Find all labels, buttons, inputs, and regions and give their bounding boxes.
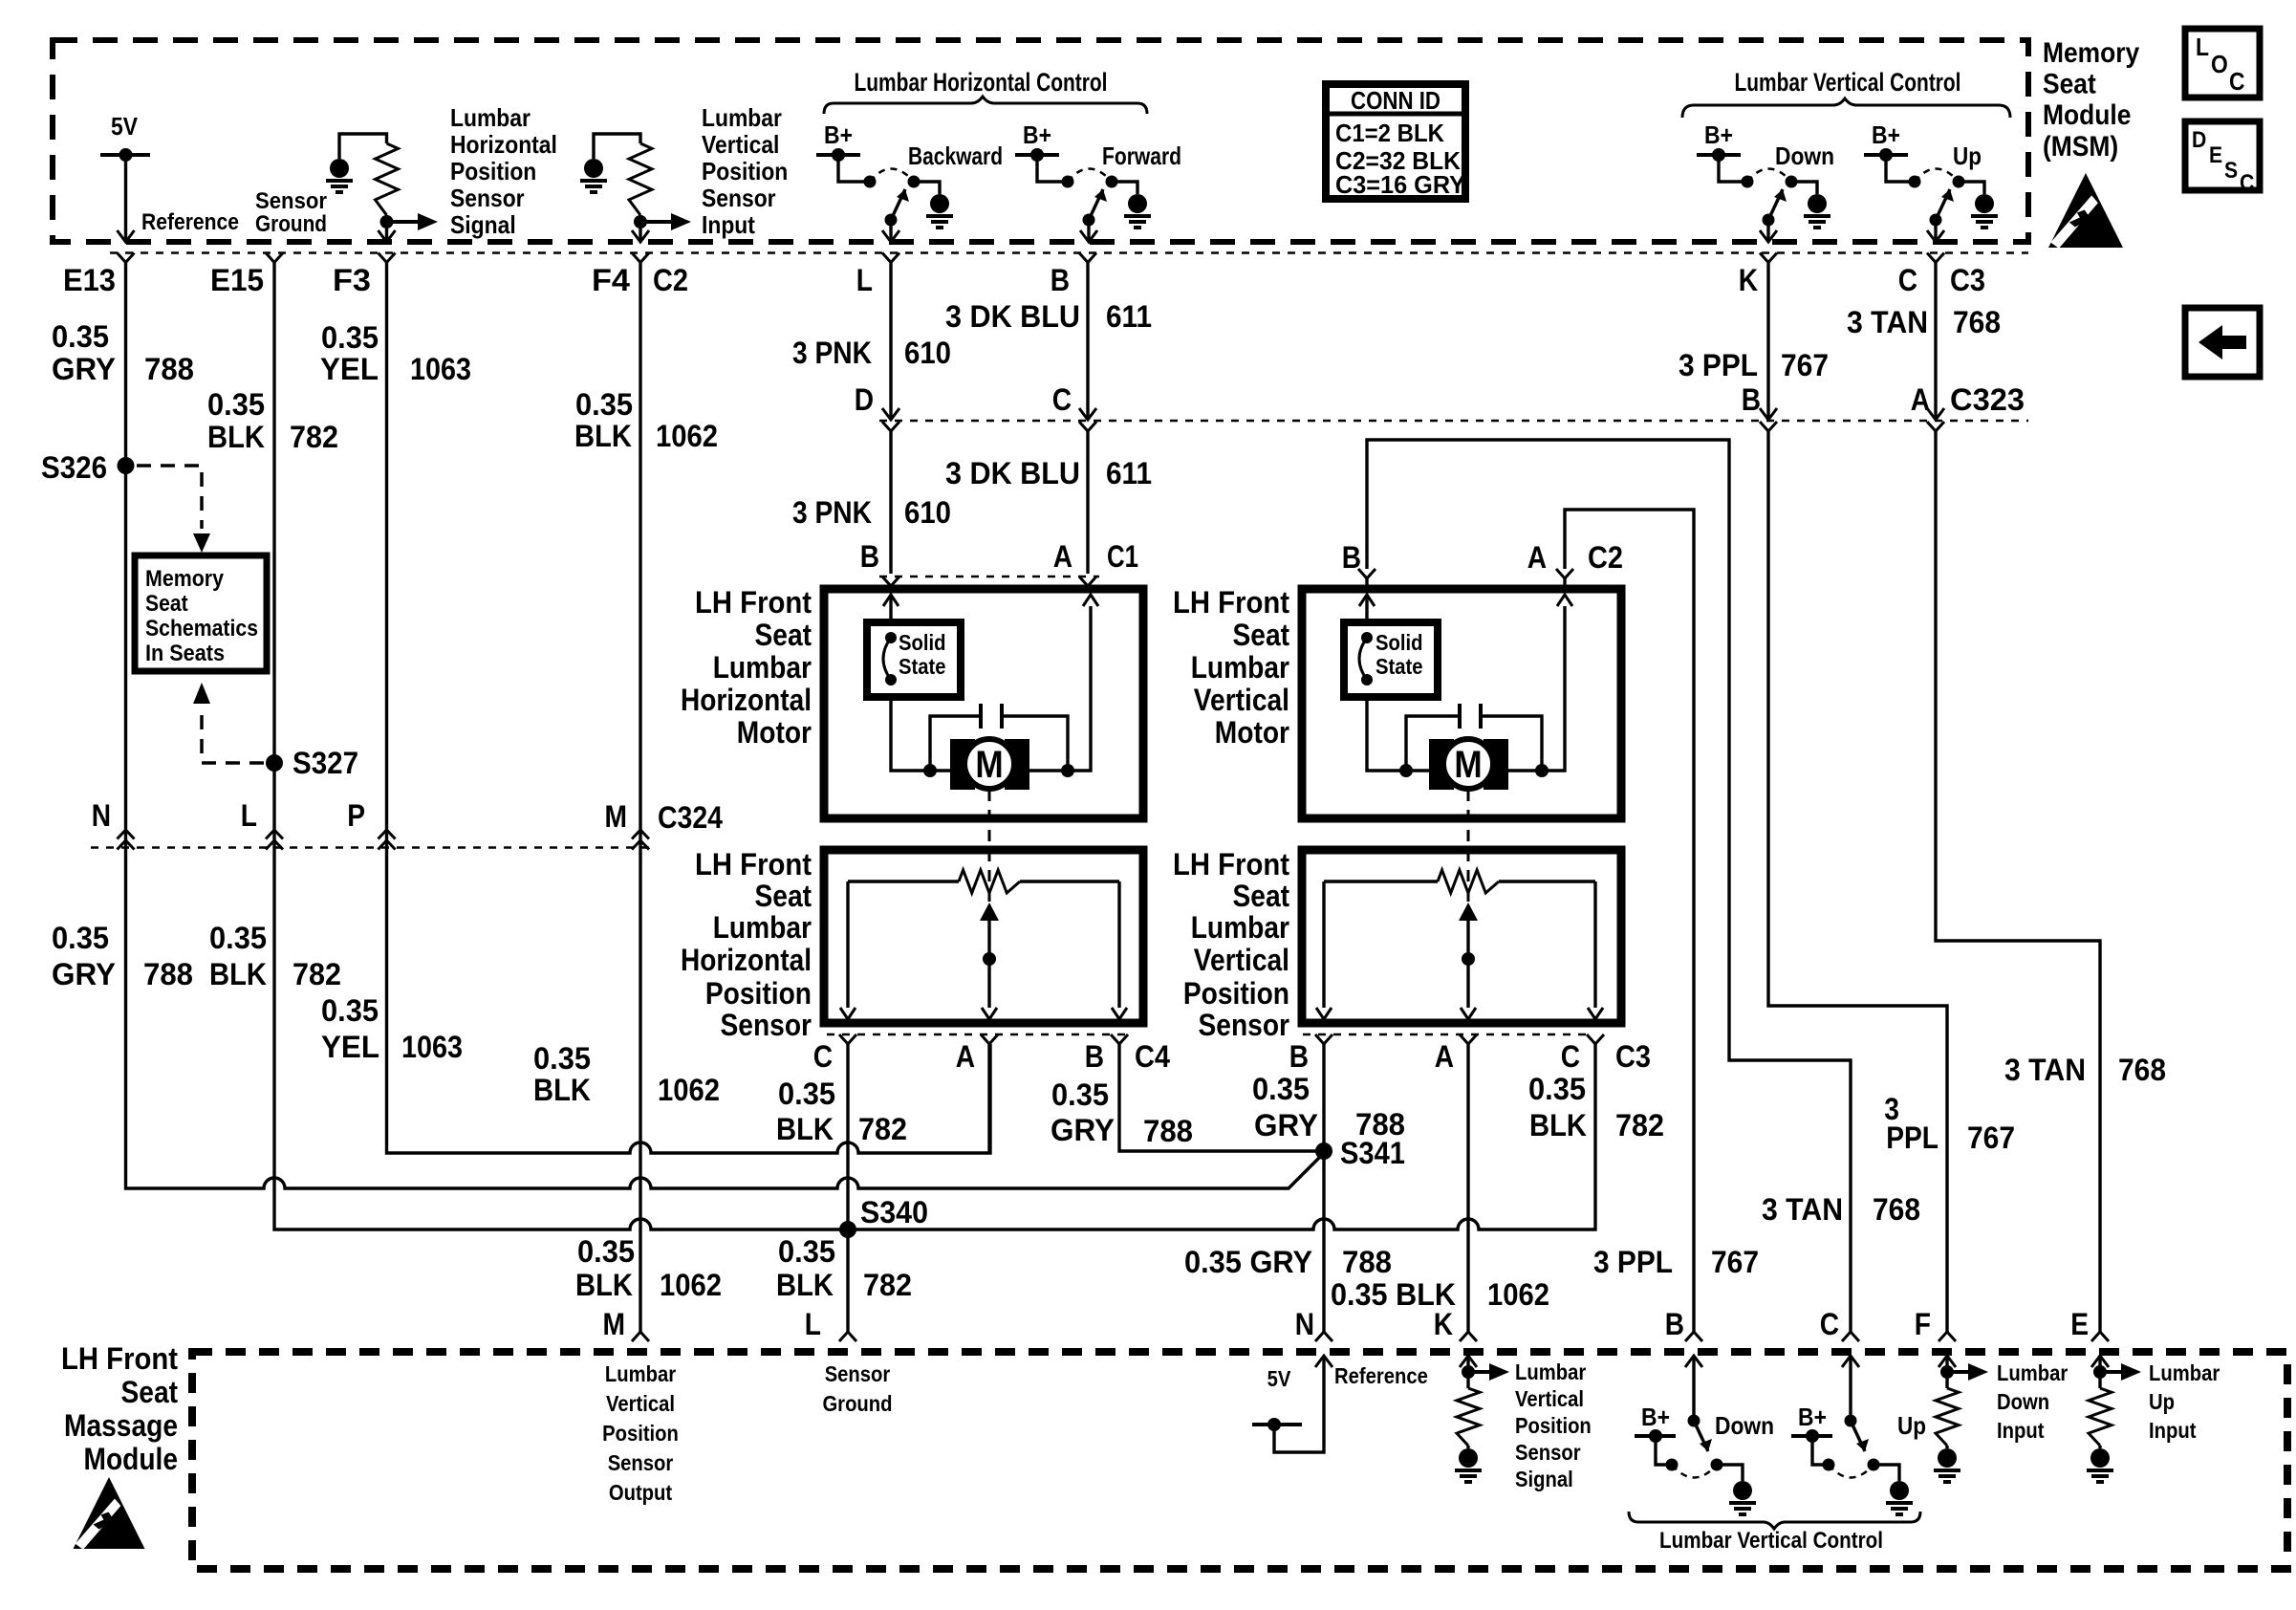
svg-text:Massage: Massage bbox=[64, 1408, 178, 1443]
bottom connector pins bbox=[632, 1332, 649, 1341]
svg-text:5V: 5V bbox=[1267, 1366, 1291, 1391]
svg-text:Motor: Motor bbox=[1215, 715, 1289, 750]
svg-text:782: 782 bbox=[858, 1112, 907, 1146]
svg-text:Sensor: Sensor bbox=[1199, 1008, 1290, 1042]
svg-text:788: 788 bbox=[143, 957, 193, 991]
svg-text:Sensor: Sensor bbox=[608, 1450, 674, 1475]
svg-text:B+: B+ bbox=[1023, 120, 1051, 149]
svg-text:C4: C4 bbox=[1135, 1039, 1170, 1074]
C3 pin wires down bbox=[1322, 1044, 1325, 1332]
svg-text:Position: Position bbox=[450, 157, 536, 185]
wires K and C descend to bottom bbox=[1768, 431, 1947, 1332]
switch blade bbox=[1930, 214, 1942, 227]
svg-text:C: C bbox=[2240, 170, 2254, 196]
wire F3 0.35 YEL 1063 (signal) bbox=[387, 263, 991, 1153]
switch contacts bbox=[1909, 176, 1921, 188]
svg-text:YEL: YEL bbox=[320, 352, 379, 386]
svg-text:767: 767 bbox=[1711, 1245, 1759, 1279]
svg-text:0.35: 0.35 bbox=[1252, 1072, 1310, 1106]
mechanical link (dashed) to position sensor bbox=[1467, 790, 1470, 903]
back-arrow box bbox=[2185, 308, 2260, 377]
svg-text:BLK: BLK bbox=[533, 1073, 591, 1107]
svg-text:GRY: GRY bbox=[1051, 1113, 1115, 1147]
svg-text:0.35: 0.35 bbox=[1528, 1072, 1586, 1106]
svg-text:Vertical: Vertical bbox=[606, 1391, 675, 1416]
svg-text:LH Front: LH Front bbox=[1173, 847, 1289, 881]
svg-text:767: 767 bbox=[1967, 1120, 2015, 1155]
svg-text:BLK: BLK bbox=[776, 1268, 834, 1302]
solid state switch bbox=[867, 622, 961, 697]
svg-text:A: A bbox=[1053, 539, 1072, 574]
ESD symbol (MSM) bbox=[2048, 173, 2123, 249]
svg-text:E: E bbox=[2070, 1307, 2089, 1341]
svg-text:0.35: 0.35 bbox=[207, 387, 265, 422]
svg-text:Lumbar: Lumbar bbox=[450, 103, 531, 132]
lumbar vertical position sensor (resistor) in MSM bbox=[594, 134, 640, 159]
svg-text:C: C bbox=[1820, 1307, 1839, 1341]
svg-text:Down: Down bbox=[1775, 141, 1834, 170]
solid state switch bbox=[1344, 622, 1438, 697]
svg-text:C2: C2 bbox=[1588, 540, 1623, 575]
svg-text:788: 788 bbox=[1355, 1107, 1405, 1142]
switch blade bbox=[885, 214, 898, 227]
svg-text:Input: Input bbox=[702, 210, 755, 239]
svg-text:C1: C1 bbox=[1107, 539, 1138, 574]
wire E13 0.35 GRY 788 down to routing bbox=[126, 263, 1325, 1188]
svg-text:C323: C323 bbox=[1950, 382, 2025, 417]
svg-text:Forward: Forward bbox=[1102, 141, 1181, 170]
Memory Seat Module (MSM) dashed outline bbox=[53, 40, 2028, 242]
svg-text:Backward: Backward bbox=[908, 141, 1003, 170]
wires to C1 connector bbox=[889, 431, 892, 574]
svg-text:3 PPL: 3 PPL bbox=[1593, 1245, 1673, 1279]
svg-text:A: A bbox=[1911, 382, 1930, 417]
svg-text:Lumbar Vertical Control: Lumbar Vertical Control bbox=[1735, 68, 1961, 97]
svg-text:611: 611 bbox=[1106, 299, 1152, 334]
svg-text:768: 768 bbox=[2118, 1053, 2166, 1087]
svg-text:C: C bbox=[2229, 67, 2245, 96]
svg-text:S327: S327 bbox=[292, 746, 358, 780]
svg-text:0.35: 0.35 bbox=[52, 319, 109, 354]
svg-text:In Seats: In Seats bbox=[145, 641, 225, 666]
connector C1 row bbox=[879, 576, 1099, 578]
svg-text:Solid: Solid bbox=[899, 630, 946, 655]
svg-text:B+: B+ bbox=[1704, 120, 1733, 149]
svg-text:Sensor: Sensor bbox=[255, 188, 327, 214]
svg-text:Lumbar: Lumbar bbox=[1191, 910, 1289, 945]
svg-text:F3: F3 bbox=[333, 263, 371, 297]
svg-text:Lumbar: Lumbar bbox=[702, 103, 782, 132]
svg-text:E13: E13 bbox=[63, 263, 116, 297]
wire F4 0.35 BLK 1062 bbox=[639, 263, 641, 1332]
switch blade bbox=[1688, 1415, 1700, 1427]
svg-text:CONN ID: CONN ID bbox=[1351, 86, 1440, 115]
svg-text:C3: C3 bbox=[1950, 263, 1985, 297]
switch contacts bbox=[864, 176, 877, 188]
K input: resistor + signal arrow bbox=[1460, 1356, 1477, 1367]
ground bbox=[1717, 1465, 1743, 1481]
svg-text:Lumbar: Lumbar bbox=[1997, 1360, 2068, 1385]
wire A(C2) up-over-down to bottom B bbox=[1565, 510, 1694, 1332]
svg-text:0.35: 0.35 bbox=[1051, 1077, 1109, 1112]
C4 pin wires down bbox=[846, 1044, 849, 1229]
inline connector C323 dashed row bbox=[879, 420, 2028, 423]
svg-text:0.35: 0.35 bbox=[533, 1041, 591, 1076]
svg-text:3 PPL: 3 PPL bbox=[1679, 348, 1758, 382]
capacitor (suppression) bbox=[1458, 704, 1462, 729]
LH Front Seat Lumbar Vertical Motor bbox=[1302, 589, 1621, 818]
svg-text:A: A bbox=[1435, 1039, 1454, 1074]
svg-text:Input: Input bbox=[2149, 1418, 2197, 1443]
svg-text:C3: C3 bbox=[1615, 1039, 1651, 1074]
svg-text:GRY: GRY bbox=[52, 352, 116, 386]
switch Down (massage) bbox=[1685, 1356, 1702, 1367]
connector pins at MSM bbox=[118, 253, 135, 263]
svg-text:Lumbar: Lumbar bbox=[2149, 1360, 2220, 1385]
motor M armature and brushes bbox=[950, 739, 975, 790]
svg-text:Seat: Seat bbox=[1233, 879, 1290, 913]
svg-text:Sensor: Sensor bbox=[825, 1361, 891, 1386]
ground bbox=[1874, 1465, 1899, 1481]
wire 5V to E13 bbox=[124, 155, 127, 240]
svg-text:1062: 1062 bbox=[1487, 1277, 1549, 1312]
connector C2 forks bbox=[1358, 569, 1375, 578]
CONN ID table bbox=[1326, 84, 1465, 199]
svg-text:Module: Module bbox=[84, 1442, 179, 1476]
svg-text:1063: 1063 bbox=[401, 1030, 463, 1064]
svg-text:Sensor: Sensor bbox=[1515, 1440, 1581, 1465]
svg-text:S340: S340 bbox=[860, 1195, 928, 1229]
svg-text:782: 782 bbox=[292, 957, 341, 991]
svg-text:Lumbar: Lumbar bbox=[713, 910, 812, 945]
E input: Lumbar Up Input bbox=[2091, 1356, 2109, 1367]
svg-text:0.35: 0.35 bbox=[321, 320, 379, 355]
svg-text:E15: E15 bbox=[210, 263, 264, 297]
svg-text:Ground: Ground bbox=[255, 211, 327, 237]
svg-text:Down: Down bbox=[1997, 1389, 2049, 1414]
svg-text:Sensor: Sensor bbox=[702, 184, 776, 212]
svg-text:1062: 1062 bbox=[656, 419, 718, 453]
svg-text:782: 782 bbox=[290, 420, 338, 454]
Memory Seat Schematics In Seats box bbox=[135, 555, 267, 671]
svg-text:3 DK BLU: 3 DK BLU bbox=[945, 456, 1080, 490]
svg-text:Signal: Signal bbox=[450, 210, 516, 239]
MSM connector dashed line bbox=[110, 251, 2028, 254]
svg-text:Memory: Memory bbox=[2043, 37, 2139, 69]
svg-text:A: A bbox=[1527, 540, 1547, 575]
svg-text:Seat: Seat bbox=[755, 618, 812, 652]
switch contacts bbox=[1062, 176, 1074, 188]
svg-text:Down: Down bbox=[1715, 1411, 1774, 1440]
svg-text:Position: Position bbox=[602, 1421, 679, 1446]
svg-text:K: K bbox=[1434, 1307, 1453, 1341]
svg-text:Lumbar: Lumbar bbox=[713, 650, 812, 685]
svg-text:Output: Output bbox=[609, 1480, 673, 1505]
svg-text:Ground: Ground bbox=[822, 1391, 892, 1416]
svg-text:1063: 1063 bbox=[410, 352, 471, 386]
svg-text:C324: C324 bbox=[658, 800, 723, 835]
svg-text:Sensor: Sensor bbox=[721, 1008, 812, 1042]
svg-text:S: S bbox=[2224, 158, 2238, 184]
svg-text:0.35 GRY: 0.35 GRY bbox=[1184, 1245, 1312, 1279]
svg-text:YEL: YEL bbox=[321, 1030, 379, 1064]
svg-text:Horizontal: Horizontal bbox=[450, 130, 557, 159]
svg-text:N: N bbox=[92, 798, 111, 833]
svg-text:S326: S326 bbox=[41, 450, 107, 485]
svg-text:C2: C2 bbox=[653, 263, 688, 297]
svg-text:B+: B+ bbox=[1872, 120, 1900, 149]
svg-text:5V: 5V bbox=[111, 112, 139, 141]
wiper bbox=[1459, 903, 1478, 921]
svg-text:782: 782 bbox=[863, 1268, 912, 1302]
ground bbox=[1112, 182, 1137, 194]
switch blade bbox=[1083, 214, 1095, 227]
svg-text:Lumbar: Lumbar bbox=[1191, 650, 1289, 685]
svg-text:3 TAN: 3 TAN bbox=[1762, 1192, 1843, 1227]
splice S326 bbox=[118, 457, 135, 474]
svg-text:3 PNK: 3 PNK bbox=[792, 495, 872, 530]
svg-text:B: B bbox=[1289, 1039, 1309, 1074]
svg-text:D: D bbox=[855, 382, 874, 417]
svg-text:GRY: GRY bbox=[1254, 1108, 1318, 1142]
svg-text:Vertical: Vertical bbox=[1515, 1386, 1584, 1411]
wire C 3 TAN 768 down bbox=[1934, 263, 1937, 419]
svg-text:Position: Position bbox=[705, 976, 812, 1011]
DESC box bbox=[2185, 121, 2260, 190]
svg-text:C: C bbox=[1561, 1039, 1580, 1074]
svg-text:PPL: PPL bbox=[1886, 1120, 1939, 1155]
svg-text:0.35: 0.35 bbox=[209, 921, 267, 955]
svg-text:Sensor: Sensor bbox=[450, 184, 525, 212]
svg-text:K: K bbox=[1739, 263, 1758, 297]
connector C3 dashed row bbox=[1303, 1033, 1587, 1036]
potentiometer element bbox=[848, 880, 959, 882]
LH Front Seat Lumbar Vertical Position Sensor bbox=[1302, 850, 1621, 1023]
wiper bbox=[980, 903, 999, 921]
svg-text:611: 611 bbox=[1106, 456, 1152, 490]
svg-text:P: P bbox=[347, 798, 365, 833]
svg-text:3 TAN: 3 TAN bbox=[1847, 305, 1928, 339]
svg-text:BLK: BLK bbox=[209, 957, 267, 991]
svg-text:(MSM): (MSM) bbox=[2043, 131, 2118, 163]
svg-text:M: M bbox=[1454, 744, 1482, 786]
svg-text:Schematics: Schematics bbox=[145, 616, 258, 642]
wire S340 to massage module L pin (sensor ground) bbox=[846, 1229, 849, 1332]
svg-text:Lumbar Horizontal Control: Lumbar Horizontal Control bbox=[855, 68, 1108, 97]
wire B(C2) up-over-down to bottom C bbox=[1367, 440, 1851, 1332]
svg-text:B: B bbox=[1665, 1307, 1684, 1341]
brace Lumbar Vertical Control (bottom) bbox=[1629, 1512, 1920, 1529]
svg-text:3 DK BLU: 3 DK BLU bbox=[945, 299, 1080, 334]
potentiometer element bbox=[1324, 880, 1438, 882]
wire B 3 DK BLU 611 bbox=[1086, 263, 1089, 419]
svg-text:Position: Position bbox=[702, 157, 788, 185]
svg-text:Lumbar: Lumbar bbox=[605, 1361, 676, 1386]
svg-text:788: 788 bbox=[1342, 1245, 1392, 1279]
svg-text:State: State bbox=[1375, 654, 1423, 679]
svg-text:Input: Input bbox=[1997, 1418, 2045, 1443]
svg-text:B: B bbox=[1051, 263, 1070, 297]
svg-text:Seat: Seat bbox=[2043, 69, 2096, 100]
svg-text:L: L bbox=[856, 263, 873, 297]
connector C4 dashed row bbox=[827, 1033, 1128, 1036]
svg-text:782: 782 bbox=[1615, 1108, 1664, 1142]
svg-text:767: 767 bbox=[1781, 348, 1829, 382]
svg-text:M: M bbox=[603, 1307, 626, 1341]
svg-text:BLK: BLK bbox=[575, 1268, 633, 1302]
svg-text:610: 610 bbox=[904, 336, 951, 370]
svg-text:Position: Position bbox=[1515, 1413, 1592, 1438]
svg-text:0.35: 0.35 bbox=[321, 993, 379, 1028]
svg-text:LH Front: LH Front bbox=[1173, 585, 1289, 620]
svg-text:768: 768 bbox=[1873, 1192, 1920, 1227]
switch blade bbox=[1763, 214, 1775, 227]
wire K 3 PPL 767 down bbox=[1766, 263, 1769, 419]
svg-text:LH Front: LH Front bbox=[695, 585, 812, 620]
mechanical link (dashed) to position sensor bbox=[988, 790, 991, 903]
motor M armature and brushes bbox=[1429, 739, 1454, 790]
svg-text:1062: 1062 bbox=[660, 1268, 722, 1302]
svg-text:C3=16 GRY: C3=16 GRY bbox=[1335, 170, 1465, 199]
svg-text:C: C bbox=[1898, 263, 1917, 297]
wire E15 0.35 BLK 782 (sensor ground) bbox=[274, 263, 1595, 1229]
svg-text:O: O bbox=[2211, 50, 2228, 78]
svg-text:B: B bbox=[1085, 1039, 1104, 1074]
svg-text:C1=2 BLK: C1=2 BLK bbox=[1335, 119, 1444, 147]
svg-text:Memory: Memory bbox=[145, 566, 225, 592]
svg-text:0.35: 0.35 bbox=[577, 1234, 635, 1269]
ground bbox=[1791, 182, 1817, 194]
svg-text:E: E bbox=[2209, 142, 2222, 168]
splice S340 bbox=[839, 1221, 856, 1238]
svg-text:A: A bbox=[956, 1039, 975, 1074]
splice S327 bbox=[266, 754, 283, 772]
svg-text:Up: Up bbox=[1897, 1411, 1926, 1440]
switch Up (massage) bbox=[1842, 1356, 1859, 1367]
svg-text:Seat: Seat bbox=[1233, 618, 1290, 652]
ESD symbol (massage module) bbox=[74, 1477, 145, 1550]
svg-text:768: 768 bbox=[1953, 305, 2001, 339]
connector C324 row bbox=[91, 846, 650, 849]
svg-text:Horizontal: Horizontal bbox=[681, 683, 812, 717]
switch contacts bbox=[1742, 176, 1754, 188]
svg-text:Up: Up bbox=[2149, 1389, 2175, 1414]
svg-text:Seat: Seat bbox=[121, 1375, 179, 1409]
LH Front Seat Lumbar Horizontal Motor bbox=[824, 589, 1143, 818]
svg-text:F4: F4 bbox=[592, 263, 630, 297]
svg-text:Horizontal: Horizontal bbox=[681, 943, 812, 977]
svg-text:Module: Module bbox=[2043, 99, 2131, 131]
svg-text:BLK: BLK bbox=[776, 1112, 834, 1146]
switch blade bbox=[1845, 1415, 1857, 1427]
svg-text:Solid: Solid bbox=[1375, 630, 1423, 655]
svg-text:L: L bbox=[241, 798, 257, 833]
svg-text:C: C bbox=[1052, 382, 1072, 417]
F input: Lumbar Down Input bbox=[1939, 1356, 1956, 1367]
svg-text:L: L bbox=[2196, 33, 2209, 61]
svg-text:Lumbar Vertical Control: Lumbar Vertical Control bbox=[1659, 1528, 1883, 1554]
svg-text:Vertical: Vertical bbox=[1194, 683, 1289, 717]
svg-text:B+: B+ bbox=[1641, 1403, 1670, 1431]
splice S341 bbox=[1315, 1142, 1332, 1160]
svg-text:B+: B+ bbox=[1798, 1403, 1827, 1431]
svg-text:F: F bbox=[1915, 1307, 1931, 1341]
ground bbox=[1959, 182, 1984, 194]
LH Front Seat Lumbar Horizontal Position Sensor bbox=[824, 850, 1143, 1023]
svg-text:B: B bbox=[1742, 382, 1761, 417]
svg-text:C: C bbox=[813, 1039, 833, 1074]
svg-text:Reference: Reference bbox=[1334, 1363, 1428, 1388]
svg-text:B: B bbox=[860, 539, 879, 574]
svg-text:Position: Position bbox=[1183, 976, 1289, 1011]
svg-text:Seat: Seat bbox=[145, 591, 188, 617]
svg-text:Reference: Reference bbox=[141, 209, 239, 235]
svg-text:1062: 1062 bbox=[658, 1073, 720, 1107]
svg-text:610: 610 bbox=[904, 495, 951, 530]
svg-text:D: D bbox=[2192, 127, 2206, 153]
svg-text:3 PNK: 3 PNK bbox=[792, 336, 872, 370]
svg-text:State: State bbox=[899, 654, 946, 679]
svg-text:LH Front: LH Front bbox=[695, 847, 812, 881]
svg-text:Lumbar: Lumbar bbox=[1515, 1360, 1586, 1384]
wire L 3 PNK 610 bbox=[889, 263, 892, 419]
switch contacts bbox=[1823, 1459, 1835, 1471]
svg-text:Signal: Signal bbox=[1515, 1467, 1573, 1491]
svg-text:BLK: BLK bbox=[574, 419, 632, 453]
lumbar horizontal position sensor (resistor) in MSM bbox=[339, 134, 387, 159]
svg-text:BLK: BLK bbox=[1529, 1108, 1587, 1142]
svg-text:M: M bbox=[975, 744, 1003, 786]
svg-text:B+: B+ bbox=[824, 120, 853, 149]
svg-text:788: 788 bbox=[144, 352, 194, 386]
svg-text:GRY: GRY bbox=[52, 957, 116, 991]
LOC box bbox=[2185, 29, 2260, 98]
svg-text:LH Front: LH Front bbox=[61, 1341, 178, 1376]
svg-text:BLK: BLK bbox=[207, 420, 265, 454]
switch contacts bbox=[1666, 1459, 1679, 1471]
svg-text:Vertical: Vertical bbox=[1194, 943, 1289, 977]
svg-text:0.35: 0.35 bbox=[52, 921, 109, 955]
svg-text:0.35: 0.35 bbox=[778, 1234, 835, 1269]
svg-text:M: M bbox=[605, 799, 628, 834]
LH Front Seat Massage Module dashed outline bbox=[192, 1352, 2287, 1569]
capacitor (suppression) bbox=[979, 704, 983, 729]
svg-text:Motor: Motor bbox=[737, 715, 812, 750]
ground bbox=[914, 182, 940, 194]
svg-text:0.35: 0.35 bbox=[778, 1077, 835, 1111]
svg-text:B: B bbox=[1342, 540, 1361, 575]
svg-text:Vertical: Vertical bbox=[702, 130, 779, 159]
svg-text:L: L bbox=[805, 1307, 821, 1341]
svg-text:788: 788 bbox=[1143, 1114, 1193, 1148]
svg-text:N: N bbox=[1295, 1307, 1314, 1341]
svg-text:0.35: 0.35 bbox=[575, 387, 633, 422]
svg-text:3 TAN: 3 TAN bbox=[2004, 1053, 2086, 1087]
svg-text:Up: Up bbox=[1953, 141, 1982, 170]
svg-text:Seat: Seat bbox=[755, 879, 812, 913]
